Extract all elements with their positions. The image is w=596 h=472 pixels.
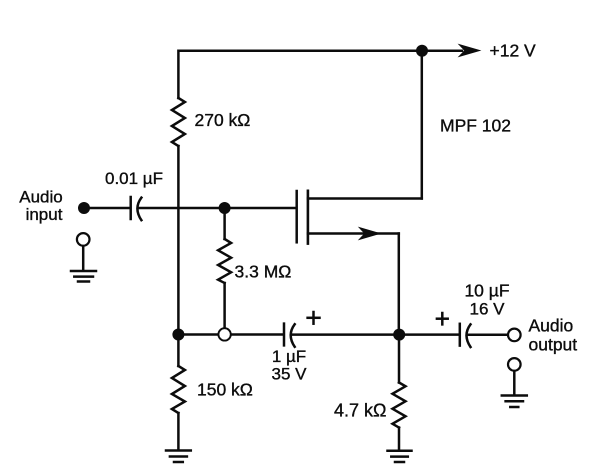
svg-text:3.3 MΩ: 3.3 MΩ — [235, 262, 292, 282]
svg-text:Audio: Audio — [19, 188, 62, 207]
svg-text:Audio: Audio — [529, 316, 574, 336]
svg-text:150 kΩ: 150 kΩ — [197, 380, 253, 400]
svg-text:output: output — [529, 335, 578, 355]
svg-text:1 µF: 1 µF — [272, 347, 306, 366]
svg-text:16 V: 16 V — [470, 300, 506, 319]
svg-text:0.01 µF: 0.01 µF — [105, 169, 163, 188]
svg-text:+12 V: +12 V — [490, 41, 537, 61]
svg-text:MPF 102: MPF 102 — [440, 116, 511, 136]
svg-text:4.7 kΩ: 4.7 kΩ — [334, 401, 386, 421]
svg-text:input: input — [26, 205, 63, 224]
svg-text:10 µF: 10 µF — [464, 281, 509, 301]
svg-text:270 kΩ: 270 kΩ — [195, 110, 251, 130]
svg-text:35 V: 35 V — [272, 365, 308, 384]
